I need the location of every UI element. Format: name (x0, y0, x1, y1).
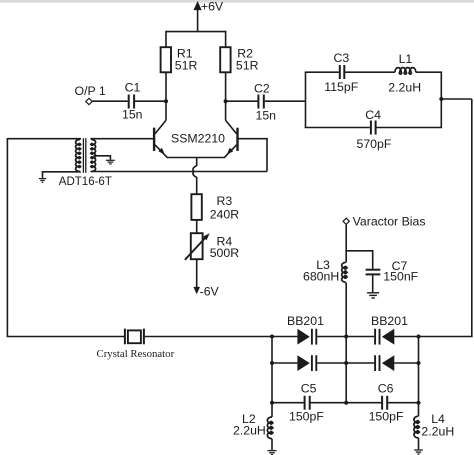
inductor L3 (342, 262, 347, 282)
wire: bias down to L3 (345, 225, 347, 263)
L1 labels (388, 52, 421, 95)
wire: tank right vertical (440, 72, 442, 127)
svg-text:2.2uH: 2.2uH (421, 424, 454, 438)
svg-text:L1: L1 (399, 52, 413, 66)
svg-text:680nH: 680nH (303, 269, 339, 283)
wire: R3 to R4 (196, 220, 198, 233)
svg-text:BB201: BB201 (371, 314, 408, 328)
ground (center tap) (106, 160, 115, 164)
ground (L2) (268, 451, 277, 455)
svg-text:15n: 15n (122, 108, 143, 122)
svg-text:+6V: +6V (201, 0, 224, 13)
wire: crystal to varactor row 1 (145, 336, 272, 338)
capacitor C4 (371, 121, 376, 135)
capacitor C3 (340, 65, 345, 79)
svg-text:115pF: 115pF (324, 80, 358, 94)
R1 value labels (175, 47, 198, 73)
wire: rail to R1 (165, 31, 167, 47)
wire: L2 top stub (271, 403, 273, 417)
crystal resonator X1 (125, 329, 144, 345)
wire: C2 to tank left node (265, 100, 306, 102)
varactor D2 (row1 right) (346, 329, 418, 345)
svg-text:2.2uH: 2.2uH (233, 424, 266, 438)
ground (C7) (367, 293, 379, 298)
wire: secondary top stub (91, 138, 96, 141)
wire: right edge vertical down (471, 99, 473, 337)
svg-text:C4: C4 (365, 108, 381, 122)
wire: primary bottom stub to ground (43, 172, 81, 178)
ground (L4) (414, 450, 423, 454)
wire: C5 to center (311, 402, 347, 404)
SSM2210 label (171, 131, 225, 145)
wire: right edge to varactor row 1 (419, 336, 473, 338)
svg-text:O/P 1: O/P 1 (75, 84, 106, 98)
Varactor Bias terminal diamond (343, 218, 349, 224)
capacitor C2 (258, 95, 263, 109)
inductor L4 (414, 416, 419, 438)
wire: secondary center tap (94, 156, 111, 160)
svg-text:570pF: 570pF (357, 137, 392, 151)
wire: center varactor column (345, 337, 347, 403)
wire: hop to R3 (196, 177, 198, 194)
wire: R4 to -6V (196, 259, 198, 288)
+6V supply arrow (194, 2, 201, 31)
resistor R3 (191, 194, 201, 220)
capacitor C1 (129, 95, 134, 109)
inductor L1 (395, 68, 416, 74)
varactor D3 (row2 left) (272, 355, 346, 371)
resistor R4 (variable) (191, 233, 203, 259)
transformer T1 secondary winding (91, 140, 95, 172)
wire: L2 to ground (271, 439, 273, 450)
varactor D1 (row1 left) (272, 329, 346, 345)
L3 labels (303, 258, 339, 284)
resistor R2 (220, 47, 230, 72)
R4 wiper arrow (185, 233, 210, 260)
wire: C1 to left collector node (135, 100, 166, 102)
svg-text:500R: 500R (210, 246, 240, 260)
inductor L2 (267, 417, 272, 439)
node dots varactor matrix (270, 335, 421, 405)
O/P 1 terminal diamond (86, 98, 92, 104)
L4 labels (421, 412, 454, 439)
wire: terminal to C1 (92, 100, 128, 102)
capacitor C5 (305, 396, 310, 410)
Varactor Bias label (353, 215, 426, 229)
L2 labels (233, 412, 266, 438)
svg-text:-6V: -6V (200, 284, 220, 298)
ADT16-6T label (59, 176, 112, 188)
svg-text:R3: R3 (217, 194, 233, 208)
svg-text:150nF: 150nF (383, 269, 418, 283)
wire: tank output to right edge (441, 98, 472, 100)
wire: tank bottom left segment (305, 127, 370, 129)
wire: left feedback vertical (6, 138, 8, 337)
node: right collector junction (224, 99, 228, 103)
wire: C6 to right column (388, 402, 418, 404)
svg-text:C2: C2 (254, 82, 270, 96)
C5 labels (289, 381, 324, 423)
transformer core (83, 138, 85, 173)
wire: L4 top stub (418, 403, 420, 417)
wire: tank top left segment (305, 71, 339, 73)
wire: tank left vertical (305, 72, 307, 127)
wire: C3 to L1 (345, 71, 395, 73)
wire: emitter join horizontal (167, 157, 225, 159)
resistor R1 (161, 47, 171, 72)
C4 labels (357, 108, 392, 151)
node: tank output junction (439, 97, 443, 101)
wire: primary top stub (7, 138, 80, 141)
wire hop over base return (193, 166, 197, 177)
wire: L1 to tank right top (416, 71, 442, 73)
wire: base of Q2 to right then down (239, 139, 268, 172)
wire: L4 to ground (418, 438, 420, 450)
-6V supply arrow (193, 287, 200, 294)
top window border strip (0, 0, 474, 3)
C6 labels (369, 381, 404, 423)
svg-text:150pF: 150pF (289, 410, 324, 424)
wire: C7 to ground (372, 275, 374, 292)
ground (transformer primary) (39, 179, 46, 183)
transistor Q2 (right half of SSM2210) (224, 101, 237, 157)
C3 labels (324, 51, 358, 94)
BB201 labels (287, 314, 408, 328)
C1 labels (122, 81, 143, 122)
svg-text:SSM2210: SSM2210 (171, 131, 225, 145)
wire: R1 to collector node (165, 72, 167, 101)
svg-text:ADT16-6T: ADT16-6T (59, 176, 112, 188)
wire: base of Q1 to transformer (96, 138, 154, 140)
svg-text:C6: C6 (378, 381, 394, 395)
svg-text:C3: C3 (334, 51, 350, 65)
transformer T1 primary winding (76, 140, 81, 172)
wire: right varactor column (418, 337, 420, 403)
capacitor C7 (366, 270, 381, 275)
svg-text:240R: 240R (210, 208, 240, 222)
O/P 1 label (75, 84, 106, 98)
wire: branch to C7 (345, 251, 372, 269)
wire: L3 to varactor center column (345, 283, 347, 337)
transistor Q1 (left half of SSM2210) (154, 101, 167, 157)
wire: +6V rail horizontal (166, 31, 226, 33)
wire: center to C6 (346, 402, 381, 404)
node: left collector junction (164, 99, 168, 103)
wire: feedback bottom to crystal (7, 336, 124, 338)
svg-text:150pF: 150pF (369, 410, 404, 424)
C2 labels (254, 82, 276, 123)
varactor D4 (row2 right) (346, 355, 418, 371)
R3 labels (210, 194, 240, 222)
R4 labels (210, 235, 240, 260)
wire: C4 to tank right bottom (377, 127, 443, 129)
Crystal Resonator label (97, 348, 175, 360)
svg-text:Crystal Resonator: Crystal Resonator (97, 348, 175, 360)
svg-text:BB201: BB201 (287, 314, 324, 328)
wire: Q2 base return to transformer bottom (96, 171, 268, 173)
-6V label (200, 284, 220, 298)
wire: row3 left segment (272, 402, 304, 404)
R2 value labels (236, 47, 259, 73)
svg-text:C5: C5 (301, 381, 317, 395)
svg-text:15n: 15n (256, 109, 277, 123)
svg-text:51R: 51R (236, 59, 259, 73)
capacitor C6 (382, 396, 387, 410)
svg-text:C1: C1 (125, 81, 141, 95)
wire: secondary bottom stub (91, 171, 96, 174)
wire: R2 to collector node (225, 72, 227, 101)
svg-text:Varactor Bias: Varactor Bias (353, 215, 426, 229)
C7 labels (383, 259, 418, 284)
wire: rail to R2 (225, 31, 227, 47)
+6V label (201, 0, 224, 13)
svg-text:51R: 51R (175, 59, 198, 73)
wire: left varactor column (271, 337, 273, 403)
wire: emitter center down to hop (196, 158, 198, 167)
wire: right collector node to C2 (226, 100, 258, 102)
svg-text:2.2uH: 2.2uH (388, 80, 421, 94)
